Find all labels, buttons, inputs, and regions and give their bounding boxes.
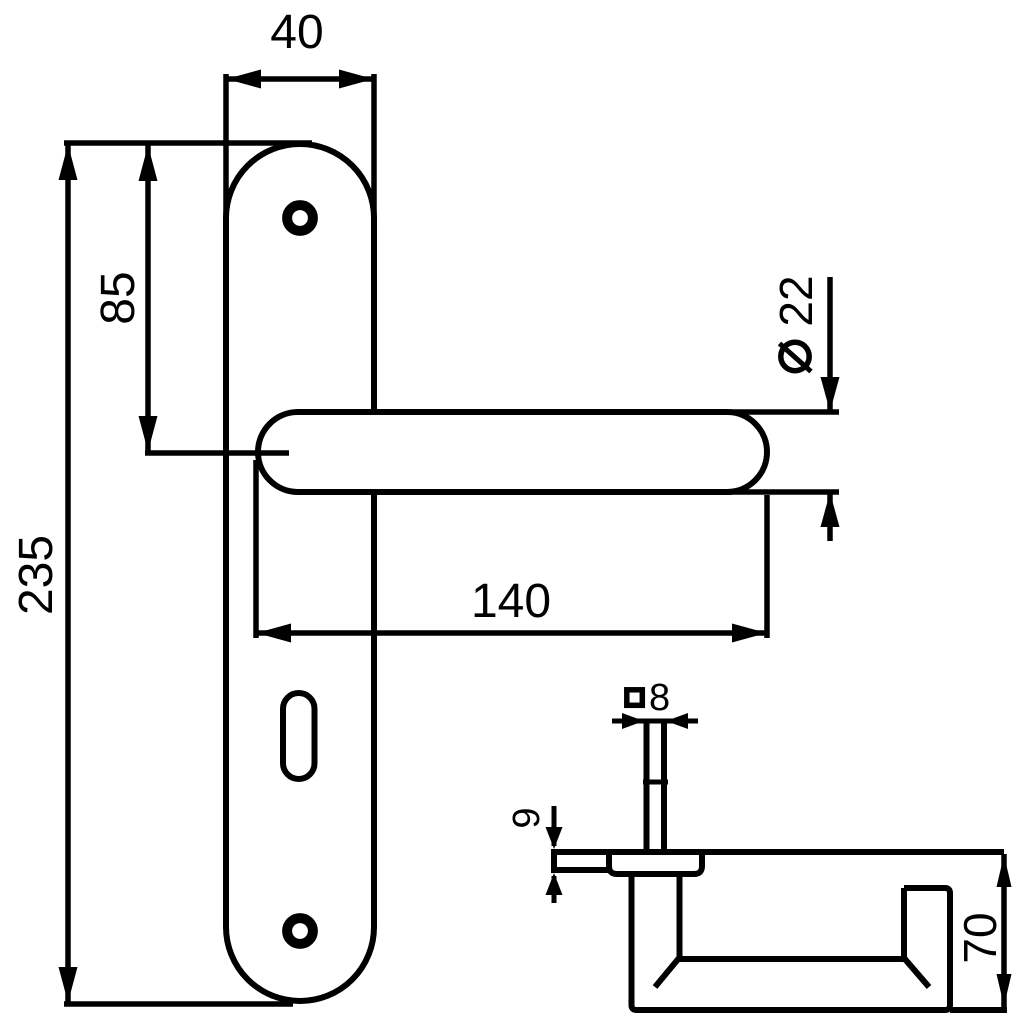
svg-text:22: 22 (770, 275, 822, 326)
side view: right corner diagonal (904, 958, 929, 987)
handle axis reference line (145, 450, 289, 456)
dimension diameter 22 (handle thickness) (770, 275, 840, 541)
bottom screw hole (287, 918, 313, 944)
handle body (258, 412, 767, 492)
svg-text:8: 8 (649, 677, 670, 719)
lever handle (front view, stadium outline) (258, 412, 839, 492)
dimension 85 (top to handle axis) (92, 145, 158, 452)
side view: grip outer contour (632, 872, 951, 1010)
top reference line (plate top) (64, 140, 312, 146)
spindle joint tick (643, 780, 668, 785)
dimension 140 (handle length) (256, 460, 767, 643)
svg-text:140: 140 (471, 575, 551, 628)
dimension 70 (grip depth) (954, 854, 1012, 1007)
keyhole slot (283, 693, 315, 779)
side view: left corner diagonal (655, 958, 679, 987)
dimension 235 (plate height) (10, 144, 78, 1003)
side view: plate top surface line + extension to 70 dim (551, 849, 1004, 855)
top screw hole (287, 205, 313, 231)
backplate (front view, stadium outline) (226, 144, 374, 1001)
handle bottom edge extension line to diameter dim (720, 489, 839, 495)
bottom reference line (plate bottom) (64, 1001, 293, 1007)
dimension square 8 (spindle) (612, 677, 698, 729)
svg-text:40: 40 (270, 6, 323, 59)
side view: thin plate slab (left end) (551, 852, 609, 870)
svg-text:235: 235 (10, 535, 63, 615)
handle top edge extension line to diameter dim (720, 409, 839, 415)
side view: bottom extension line to 70 dim (950, 1007, 1007, 1013)
dimension 9 (plate thickness) (506, 806, 563, 903)
dimension 40 (plate width) (226, 6, 374, 225)
side view: grip inner contour (680, 872, 905, 959)
svg-text:85: 85 (92, 271, 145, 324)
side view: spindle shaft (647, 719, 665, 852)
svg-text:70: 70 (954, 912, 1006, 963)
side view: handle collar (609, 852, 702, 874)
svg-text:9: 9 (506, 807, 548, 828)
